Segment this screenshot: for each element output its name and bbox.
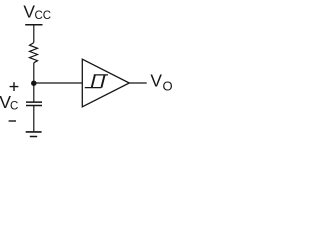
svg-text:VCC: VCC [23, 1, 51, 22]
wire capacitor to ground [33, 106, 35, 131]
label minus (capacitor negative) [9, 120, 16, 122]
wire resistor to node [33, 63, 35, 83]
svg-text:VO: VO [150, 70, 172, 93]
svg-text:VC: VC [0, 92, 18, 113]
label + (capacitor positive) [10, 82, 19, 91]
node junction dot [31, 80, 37, 86]
capacitor C [26, 102, 42, 105]
power rail tick VCC [25, 24, 42, 26]
output wire [129, 82, 146, 84]
buffer U1 triangle (Schmitt-trigger) [82, 59, 129, 107]
wire node to buffer input [34, 82, 83, 84]
wire VCC tick to resistor [33, 25, 35, 43]
ground [26, 132, 42, 137]
resistor R [30, 43, 38, 63]
wire node to capacitor [33, 83, 35, 101]
hysteresis symbol [85, 75, 108, 88]
